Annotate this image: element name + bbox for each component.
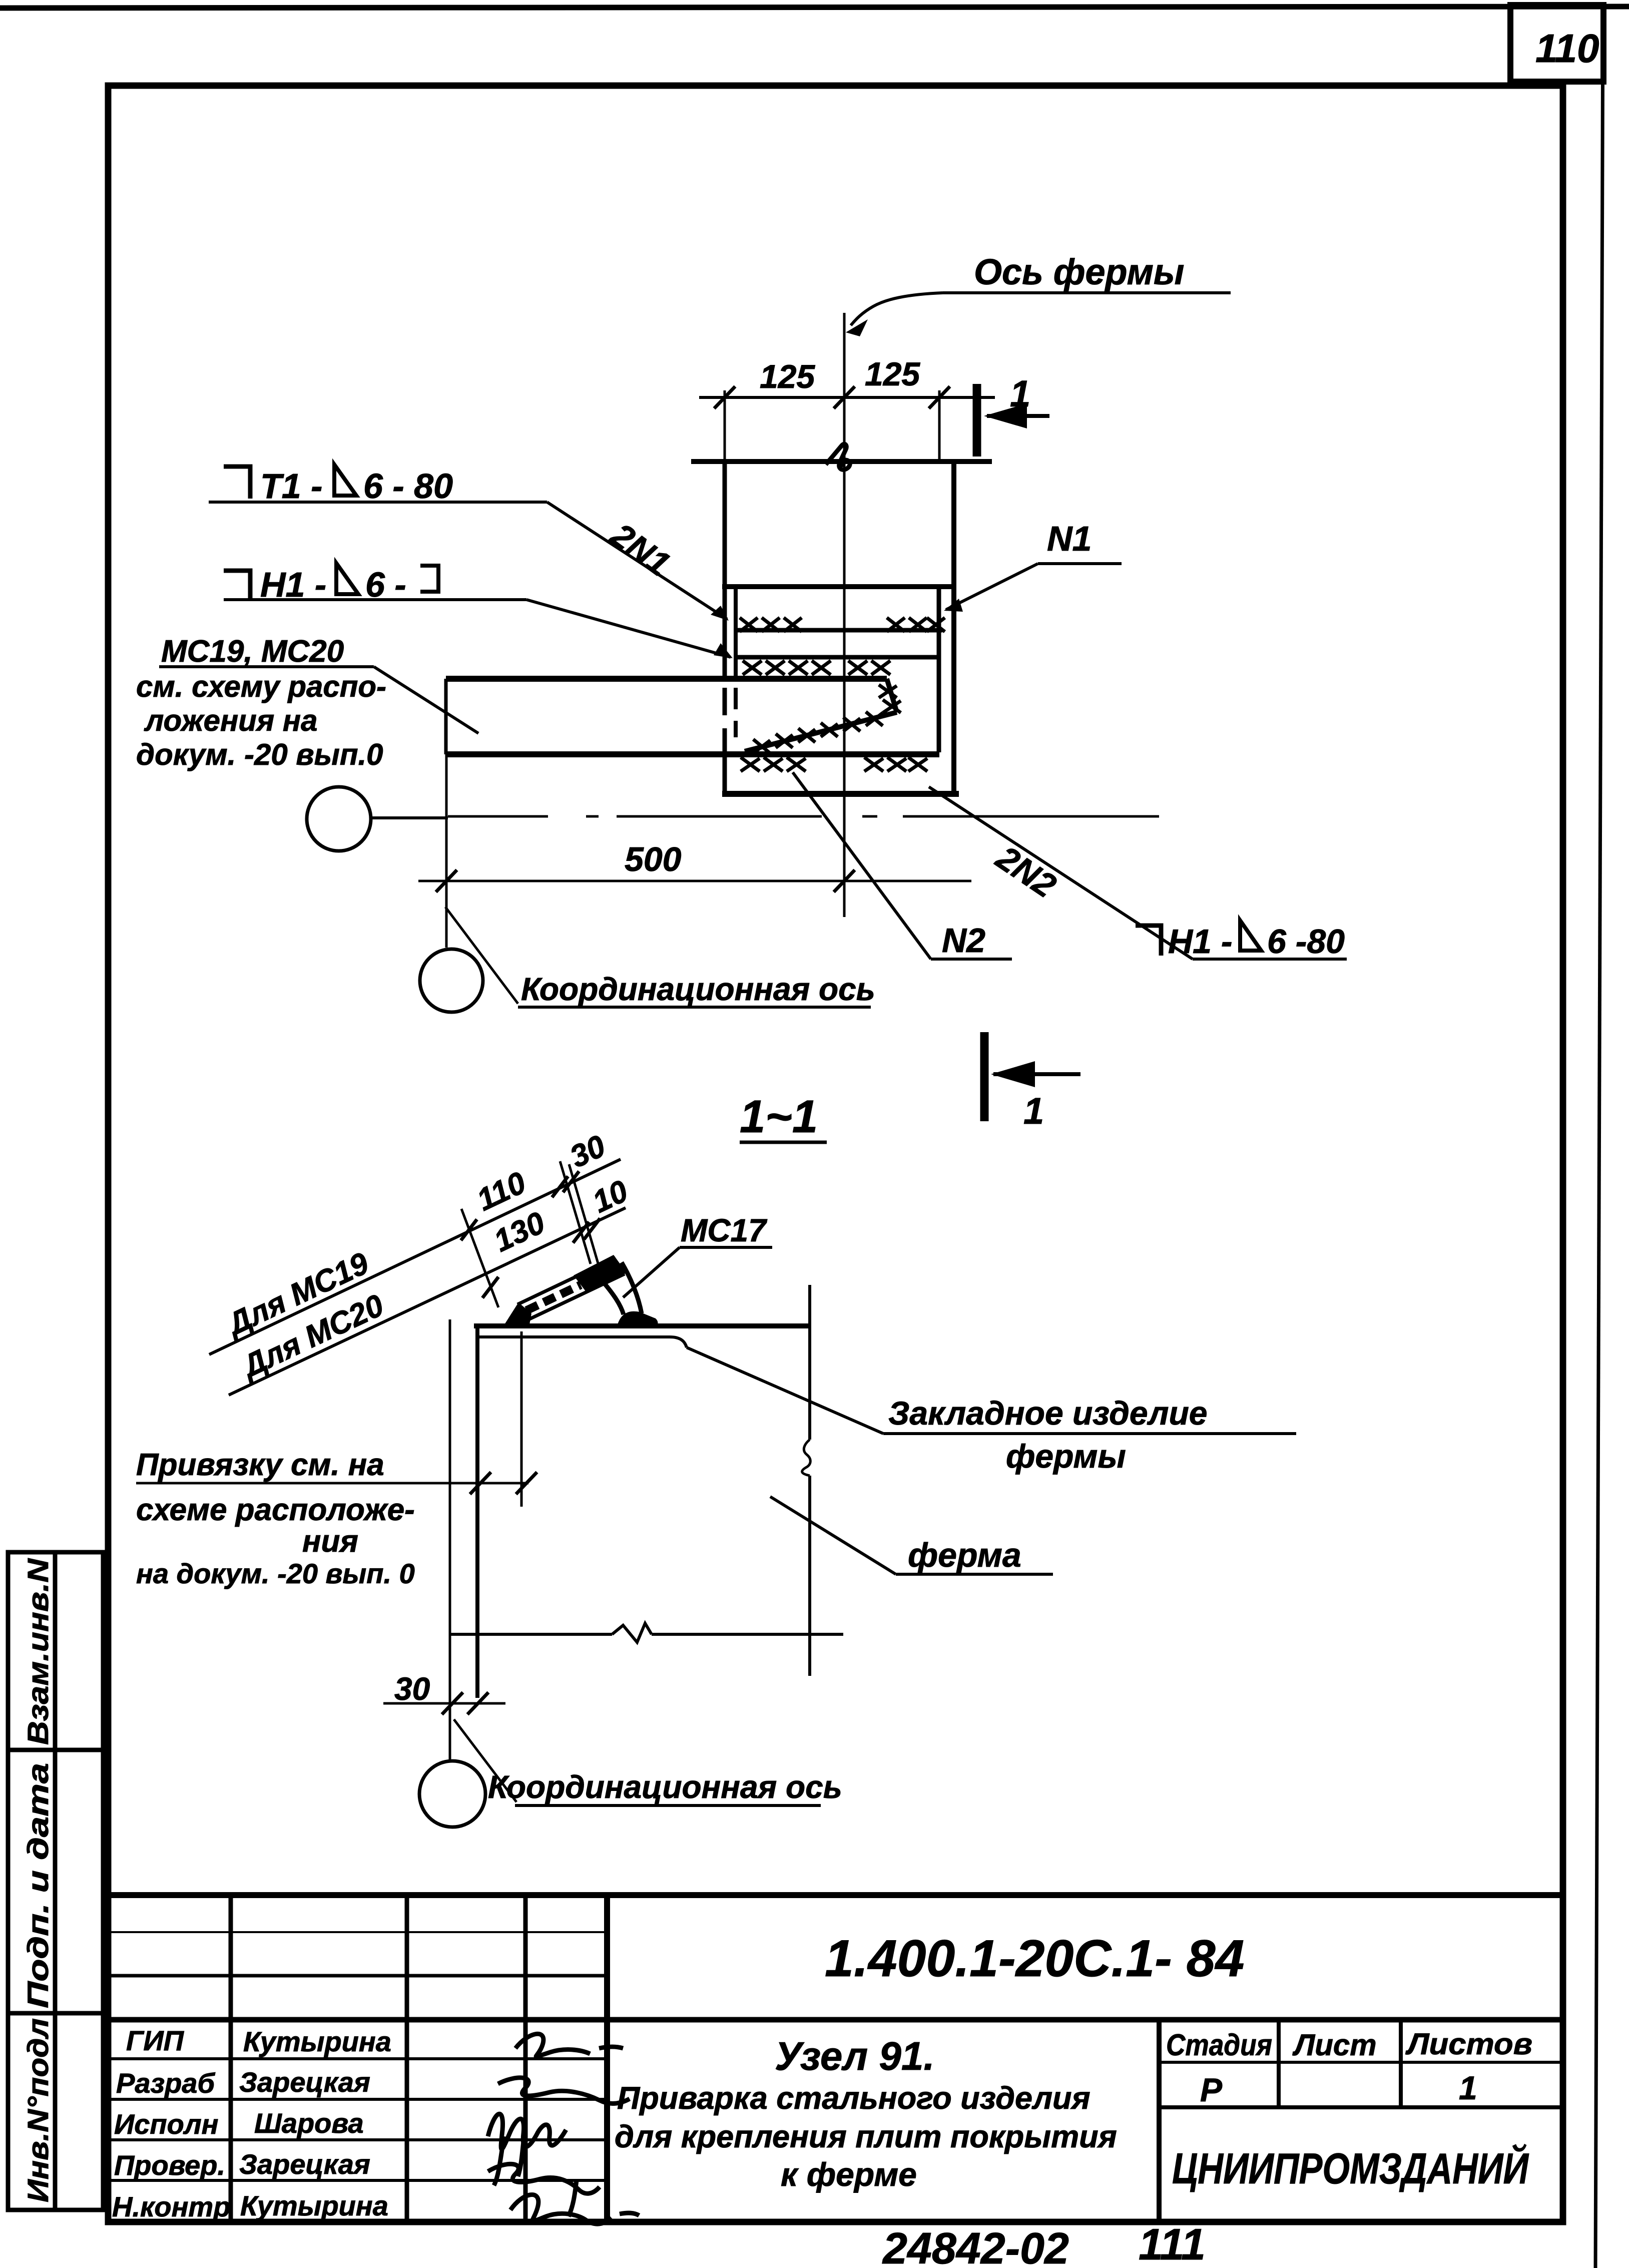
svg-text:Взам.инв.N: Взам.инв.N xyxy=(22,1558,55,1745)
sheet right edge line xyxy=(1595,5,1603,2268)
role GIP xyxy=(126,2025,185,2056)
privyazka tick 2 xyxy=(516,1472,537,1494)
svg-text:Разраб: Разраб xyxy=(116,2067,215,2099)
svg-text:Координационная ось: Координационная ось xyxy=(521,971,875,1007)
dim extension left 125 xyxy=(724,390,726,460)
title block vertical col 2 xyxy=(405,1895,409,2223)
svg-text:ЦНИИПРОМЗДАНИЙ: ЦНИИПРОМЗДАНИЙ xyxy=(1172,2144,1529,2193)
svg-text:см. схему распо-: см. схему распо- xyxy=(136,670,386,703)
svg-text:Инв.N°подл: Инв.N°подл xyxy=(22,2018,55,2202)
name Zaretskaya 2 xyxy=(239,2148,370,2180)
privyazka text line3 xyxy=(302,1524,358,1559)
truss right edge break xyxy=(802,1440,811,1476)
svg-text:125: 125 xyxy=(760,358,815,395)
svg-text:ГИП: ГИП xyxy=(126,2025,185,2056)
role Ispoln xyxy=(114,2108,219,2140)
label ferma leader xyxy=(770,1497,896,1574)
role Nkontr xyxy=(112,2191,230,2222)
svg-text:МС17: МС17 xyxy=(681,1212,768,1248)
svg-text:Провер.: Провер. xyxy=(114,2149,225,2181)
svg-text:Н.контр: Н.контр xyxy=(112,2191,230,2222)
svg-text:30: 30 xyxy=(394,1671,430,1707)
dim 500 tick left xyxy=(436,870,457,892)
svg-text:1: 1 xyxy=(1023,1090,1044,1132)
column left edge hidden dashes xyxy=(723,688,727,794)
truss bottom break line xyxy=(450,1633,843,1636)
left stamp label Podp i data xyxy=(22,1763,55,2008)
header Listov xyxy=(1405,2027,1532,2061)
svg-text:Узел 91.: Узел 91. xyxy=(775,2034,935,2078)
slope dim text 130 xyxy=(488,1205,550,1259)
label MC17 leader xyxy=(623,1247,680,1297)
centerline dash dot xyxy=(448,815,1159,818)
column left edge upper part xyxy=(723,462,727,682)
title block vertical listov divider xyxy=(1399,2020,1403,2107)
weld marks bevel xyxy=(753,712,883,753)
plate left edge xyxy=(734,587,738,682)
label N2 underline xyxy=(931,958,1012,961)
svg-text:Подп. и дата: Подп. и дата xyxy=(22,1763,55,2008)
axis ferm leader xyxy=(846,293,943,336)
truss top line xyxy=(474,1323,810,1328)
coordination axis circle bottom xyxy=(419,1761,485,1827)
strap MC17 left foot xyxy=(504,1302,531,1324)
title block line under designation xyxy=(105,2017,1563,2023)
strap MC17 right foot xyxy=(618,1311,658,1324)
axis ferm label underline xyxy=(943,291,1231,294)
inventory number 111 xyxy=(1139,2219,1206,2268)
slope dim text 30 xyxy=(565,1129,611,1175)
plate right edge xyxy=(937,587,941,752)
section title 1-1 xyxy=(740,1091,818,1142)
column bottom edge xyxy=(722,791,959,797)
strap MC17 right leg xyxy=(604,1262,642,1314)
label 2N1 xyxy=(604,515,677,583)
title block vertical thick divider xyxy=(604,1895,610,2223)
label 2N2 text xyxy=(989,838,1063,905)
label N1 leader xyxy=(944,564,1038,612)
weld T1 label underline xyxy=(209,501,547,504)
plate anchor extension line xyxy=(520,1331,523,1507)
dimension line 500 xyxy=(418,880,971,882)
truss right edge xyxy=(808,1285,811,1676)
svg-text:Кутырина: Кутырина xyxy=(240,2190,388,2221)
svg-text:Лист: Лист xyxy=(1292,2028,1377,2062)
weld H1 label underline xyxy=(224,598,526,601)
title block thin row line 1 xyxy=(108,1931,607,1933)
left stamp divider 1 xyxy=(8,1748,103,1752)
svg-text:к ферме: к ферме xyxy=(781,2156,917,2193)
svg-text:Зарецкая: Зарецкая xyxy=(239,2148,370,2180)
privyazka dim line xyxy=(136,1482,528,1485)
weld T1 label bracket xyxy=(224,467,250,499)
svg-text:125: 125 xyxy=(865,355,920,392)
sheet top edge line xyxy=(0,7,1629,8)
dim 30 line xyxy=(383,1702,505,1705)
svg-text:Н1 -: Н1 - xyxy=(1168,923,1232,961)
weld H1-80 label bracket xyxy=(1136,926,1161,956)
svg-text:схеме расположе-: схеме расположе- xyxy=(136,1493,415,1527)
strap MC17 band holes xyxy=(526,1285,581,1310)
role Prover xyxy=(114,2149,225,2181)
signature 4 xyxy=(488,2164,600,2216)
institute TsNIIPROMZDANIY xyxy=(1172,2144,1529,2193)
column top edge line xyxy=(691,459,992,464)
title block name row line 4 xyxy=(108,2179,607,2182)
section marker bottom label 1 xyxy=(1023,1090,1044,1132)
role Razrab xyxy=(116,2067,215,2099)
section marker top label 1 xyxy=(1010,373,1030,414)
section marker top arrow xyxy=(984,403,1049,428)
designation text 1.400.1-20C.1-84 xyxy=(825,1930,1244,1988)
coordination axis circle lower xyxy=(420,949,483,1012)
dim extension coordination axis xyxy=(445,754,448,948)
svg-text:Т1 -: Т1 - xyxy=(260,467,322,506)
svg-text:24842-02: 24842-02 xyxy=(882,2223,1069,2268)
slope line MC19 xyxy=(209,1159,621,1354)
slope tick L1 E3 xyxy=(563,1171,579,1192)
title block vertical col 3 xyxy=(523,1895,528,2223)
dim 30 tick 1 xyxy=(442,1692,463,1714)
dim text 125 left xyxy=(760,358,815,395)
weld H1 leader xyxy=(526,600,733,658)
svg-text:Ось фермы: Ось фермы xyxy=(974,252,1184,292)
section marker bottom bar xyxy=(980,1032,989,1121)
svg-text:110: 110 xyxy=(1535,26,1599,71)
title block stadia header underline xyxy=(1159,2061,1563,2064)
left stamp divider 2 xyxy=(8,2011,103,2016)
listov value 1 xyxy=(1459,2069,1477,2106)
page number box 110 xyxy=(1510,5,1603,82)
coordination axis label upper xyxy=(521,971,875,1007)
title block name row line 2 xyxy=(108,2098,607,2101)
left stamp label Vzam inv xyxy=(22,1558,55,1745)
svg-text:Исполн: Исполн xyxy=(114,2108,219,2140)
signature 5 xyxy=(510,2194,639,2224)
name Kutyrina 1 xyxy=(243,2026,391,2057)
slope dim text 10 xyxy=(587,1174,633,1220)
beam left end edge xyxy=(444,679,448,754)
beam bevel cut edge xyxy=(745,712,897,751)
axis ferm label text xyxy=(974,252,1184,292)
strap MC17 band solid top xyxy=(574,1255,627,1292)
label zakladnoe text line1 xyxy=(888,1395,1208,1432)
title block vertical stadia divider xyxy=(1157,2020,1162,2223)
page number 110 text xyxy=(1535,26,1599,71)
signature 3 xyxy=(488,2114,566,2185)
privyazka text line1 xyxy=(136,1448,384,1482)
svg-text:на докум. -20 вып. 0: на докум. -20 вып. 0 xyxy=(136,1558,415,1589)
title block top line xyxy=(105,1892,1563,1898)
signature 1 xyxy=(515,2034,623,2056)
slope dim text 110 xyxy=(471,1165,531,1218)
dim text 125 right xyxy=(865,355,920,392)
svg-text:Кутырина: Кутырина xyxy=(243,2026,391,2057)
signature 2 xyxy=(498,2078,630,2104)
dim tick right xyxy=(929,386,950,408)
svg-text:фермы: фермы xyxy=(1006,1438,1126,1475)
svg-text:Стадия: Стадия xyxy=(1166,2028,1272,2062)
slope tick L2 E3 xyxy=(584,1218,600,1239)
svg-text:ложения на: ложения на xyxy=(144,704,317,737)
slope tick L1 E1 xyxy=(461,1219,477,1240)
svg-text:6 - 80: 6 - 80 xyxy=(363,467,453,506)
coordination axis leader lower xyxy=(454,1719,516,1802)
dim tick left xyxy=(714,386,735,408)
beam MC19 top edge xyxy=(446,676,887,682)
coordination axis leader upper xyxy=(445,907,518,1004)
svg-text:ния: ния xyxy=(302,1524,358,1559)
svg-text:N1: N1 xyxy=(1047,519,1092,558)
section marker bottom arrow xyxy=(991,1061,1080,1087)
label MC19 leader xyxy=(374,667,478,733)
label zakladnoe text line2 xyxy=(1006,1438,1126,1475)
stadia value P xyxy=(1200,2071,1223,2108)
coordination axis label underline upper xyxy=(518,1006,871,1009)
name Kutyrina 2 xyxy=(240,2190,388,2221)
coordination axis extension lower xyxy=(449,1319,451,1761)
label zakladnoe underline xyxy=(883,1432,1296,1435)
dim text 500 xyxy=(625,840,682,878)
privyazka text line4 xyxy=(136,1558,415,1589)
title block thin row line 2 xyxy=(108,1974,607,1978)
label MC19 MC20 text xyxy=(161,634,344,669)
svg-text:МС19, МС20: МС19, МС20 xyxy=(161,634,344,669)
plate left edge hidden dashes xyxy=(734,688,738,737)
slope tick L2 E1 xyxy=(482,1277,498,1298)
title Uzel 91 xyxy=(775,2034,935,2078)
title block name row line 3 xyxy=(108,2138,607,2141)
label N2 text xyxy=(942,922,985,960)
label N1 text xyxy=(1047,519,1092,558)
weld T1 label text xyxy=(260,465,453,506)
weld marks row3 left xyxy=(741,757,806,771)
title block vertical list divider xyxy=(1277,2020,1281,2107)
plate N1 top edge xyxy=(734,628,942,633)
svg-text:111: 111 xyxy=(1139,2219,1206,2268)
label MC19 underline xyxy=(159,665,374,668)
dim tick center xyxy=(834,386,855,408)
strap MC17 inclined band xyxy=(517,1258,625,1320)
dim 30 text xyxy=(394,1671,430,1707)
title block name row line 1 xyxy=(108,2057,607,2060)
dim extension right 125 xyxy=(938,390,941,460)
title block line above institute cell xyxy=(1159,2105,1563,2109)
header Stadia xyxy=(1166,2028,1272,2062)
label MC19 line3 xyxy=(144,704,317,737)
slope tick L2 E2 xyxy=(573,1222,589,1243)
slope tick L1 E2 xyxy=(552,1176,568,1197)
weld H1 label bracket xyxy=(224,571,250,600)
svg-text:Зарецкая: Зарецкая xyxy=(239,2066,370,2098)
privyazka text line2 xyxy=(136,1493,415,1527)
title line k ferme xyxy=(781,2156,917,2193)
label ferma text xyxy=(908,1536,1021,1574)
embedded plate bottom line xyxy=(479,1337,687,1347)
section title underline xyxy=(740,1141,827,1144)
weld H1 label text xyxy=(260,563,438,604)
coordination axis label underline lower xyxy=(515,1804,821,1807)
label MC19 line2 xyxy=(136,670,386,703)
document number 24842-02 xyxy=(882,2223,1069,2268)
dim 30 tick 2 xyxy=(467,1692,488,1714)
truss left edge xyxy=(475,1324,479,1698)
dimension line 125 125 xyxy=(699,396,995,399)
label MC17 underline xyxy=(680,1246,772,1249)
plate N1 bottom edge xyxy=(737,655,937,660)
truss axis line xyxy=(843,313,846,917)
weld marks row1 left xyxy=(740,618,802,632)
slope label dlya MC20 xyxy=(235,1288,389,1385)
section marker top bar xyxy=(973,384,981,457)
slope line MC20 xyxy=(229,1208,626,1395)
svg-text:1: 1 xyxy=(1459,2069,1477,2106)
header List xyxy=(1292,2028,1377,2062)
svg-text:Привязку см. на: Привязку см. на xyxy=(136,1448,384,1482)
svg-text:ферма: ферма xyxy=(908,1536,1021,1574)
weld marks row2 left xyxy=(743,661,831,675)
svg-text:Шарова: Шарова xyxy=(254,2107,364,2139)
title line privarka xyxy=(617,2081,1091,2116)
slope extension line E1 xyxy=(461,1209,498,1307)
label ferma underline xyxy=(896,1573,1053,1576)
slope label dlya MC19 xyxy=(220,1246,374,1343)
slope extension line E3 xyxy=(569,1164,603,1280)
title block vertical col 1 xyxy=(229,1895,233,2223)
svg-text:Закладное изделие: Закладное изделие xyxy=(888,1395,1208,1432)
label MC19 line4 xyxy=(136,738,383,771)
truss bottom break squiggle xyxy=(612,1623,652,1642)
privyazka tick 1 xyxy=(470,1472,491,1494)
weld marks row3 right xyxy=(864,757,927,771)
axis break squiggle xyxy=(826,444,850,470)
coordination axis circle upper xyxy=(307,787,371,851)
column inner horizontal line xyxy=(722,584,956,589)
svg-text:6 -80: 6 -80 xyxy=(1267,923,1345,961)
svg-text:Листов: Листов xyxy=(1405,2027,1532,2061)
slope extension line E2 xyxy=(560,1161,591,1264)
weld T1 leader xyxy=(547,502,729,621)
title line dlya krepleniya xyxy=(615,2119,1117,2154)
name Zaretskaya 1 xyxy=(239,2066,370,2098)
svg-text:Координационная ось: Координационная ось xyxy=(488,1769,842,1805)
coordination axis label lower xyxy=(488,1769,842,1805)
weld marks beam end xyxy=(879,685,901,713)
beam right end edge xyxy=(887,679,897,712)
svg-text:Приварка стального изделия: Приварка стального изделия xyxy=(617,2081,1091,2116)
left stamp divider vertical xyxy=(53,1552,58,2210)
label N2 leader xyxy=(793,772,931,959)
svg-text:1~1: 1~1 xyxy=(740,1091,818,1142)
circle tail line xyxy=(371,816,448,819)
svg-text:1.400.1-20C.1- 84: 1.400.1-20C.1- 84 xyxy=(825,1930,1244,1988)
weld H1-80 label underline xyxy=(1193,958,1347,961)
label MC17 text xyxy=(681,1212,768,1248)
svg-text:N2: N2 xyxy=(942,922,985,960)
dim 500 tick right xyxy=(834,870,855,892)
weld H1-80 label text xyxy=(1168,921,1345,961)
svg-text:1: 1 xyxy=(1010,373,1030,414)
name Sharova xyxy=(254,2107,364,2139)
label zakladnoe leader xyxy=(687,1347,883,1434)
label N1 underline xyxy=(1038,562,1122,565)
plate H1 bottom edge with beam bottom xyxy=(446,751,939,757)
svg-text:Р: Р xyxy=(1200,2071,1223,2108)
svg-text:для крепления плит покрытия: для крепления плит покрытия xyxy=(615,2119,1117,2154)
left stamp label Inv N podl xyxy=(22,2018,55,2202)
weld marks row2 right xyxy=(848,661,890,675)
label 2N2 leader xyxy=(929,787,1193,959)
svg-text:докум. -20 вып.0: докум. -20 вып.0 xyxy=(136,738,383,771)
svg-text:500: 500 xyxy=(625,840,682,878)
column right edge xyxy=(951,462,956,794)
weld marks row1 right xyxy=(887,618,945,632)
left stamp outer box xyxy=(8,1552,103,2210)
